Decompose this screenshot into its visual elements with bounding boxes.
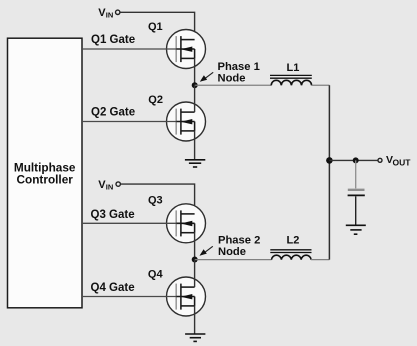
svg-text:Node: Node [218, 246, 246, 258]
svg-text:Q2: Q2 [148, 94, 163, 106]
label Phase 2 Node [218, 235, 260, 258]
ground below Q2 [185, 160, 205, 167]
node VIN top label [98, 7, 113, 19]
ground below capacitor [346, 225, 366, 234]
svg-text:Q1 Gate: Q1 Gate [91, 34, 135, 46]
node VOUT label [386, 154, 411, 167]
arrow to phase 1 node [200, 72, 213, 82]
label Phase 1 Node [218, 61, 260, 85]
svg-text:Phase 1: Phase 1 [218, 61, 260, 73]
wire phase 1 node to Q2 drain [194, 85, 196, 112]
svg-text:Q3: Q3 [148, 195, 163, 207]
node Phase 1 junction [192, 82, 198, 88]
terminal VIN bottom [116, 182, 120, 186]
svg-text:OUT: OUT [393, 157, 412, 167]
arrow to phase 2 node [200, 246, 213, 255]
svg-text:IN: IN [106, 10, 114, 19]
node output rail junction [326, 157, 333, 164]
wire Q1 source to phase 1 node [194, 58, 196, 85]
wire output horizontal [329, 159, 378, 161]
transistor Q2 [167, 102, 206, 141]
capacitor C1 [348, 160, 365, 225]
svg-text:L1: L1 [287, 62, 300, 74]
wire Q4 source to ground [194, 306, 196, 334]
svg-text:IN: IN [106, 182, 114, 191]
wire Q2 source to ground [194, 131, 196, 160]
ground below Q4 [185, 334, 205, 341]
svg-text:Controller: Controller [17, 172, 74, 186]
wire Q1 gate [82, 48, 176, 50]
inductor L1 [270, 75, 312, 85]
wire Q3 source to phase 2 node [194, 233, 196, 260]
wire phase 1 to L1 [195, 84, 272, 86]
node Phase 2 junction [192, 257, 198, 263]
inductor L2 [270, 250, 311, 260]
wire Q2 gate [82, 121, 176, 123]
svg-text:Q3 Gate: Q3 Gate [91, 209, 135, 221]
terminal VOUT [378, 158, 382, 162]
node capacitor junction [353, 157, 359, 163]
svg-text:Q4 Gate: Q4 Gate [91, 282, 135, 294]
transistor Q3 [167, 204, 206, 243]
controller U1 box [8, 38, 83, 308]
wire Q4 gate [82, 296, 176, 298]
wire phase 2 node to Q4 drain [194, 260, 196, 288]
wire phase 2 to L2 [195, 259, 272, 261]
svg-text:Q4: Q4 [148, 268, 164, 280]
wire L1 to output rail [312, 84, 330, 86]
svg-text:Q1: Q1 [148, 21, 163, 33]
transistor Q1 [167, 30, 206, 69]
svg-text:Node: Node [218, 73, 246, 85]
svg-text:Q2 Gate: Q2 Gate [91, 107, 135, 119]
wire VIN bottom rail [121, 184, 195, 214]
svg-text:L2: L2 [287, 235, 300, 247]
wire VIN top rail [120, 12, 194, 39]
node VIN bottom label [98, 179, 113, 191]
wire output rail vertical [328, 85, 330, 259]
wire Q3 gate [82, 222, 176, 224]
transistor Q4 [167, 277, 206, 316]
svg-text:Phase 2: Phase 2 [218, 235, 260, 247]
wire L2 to output rail [311, 259, 329, 261]
terminal VIN top [116, 10, 120, 14]
